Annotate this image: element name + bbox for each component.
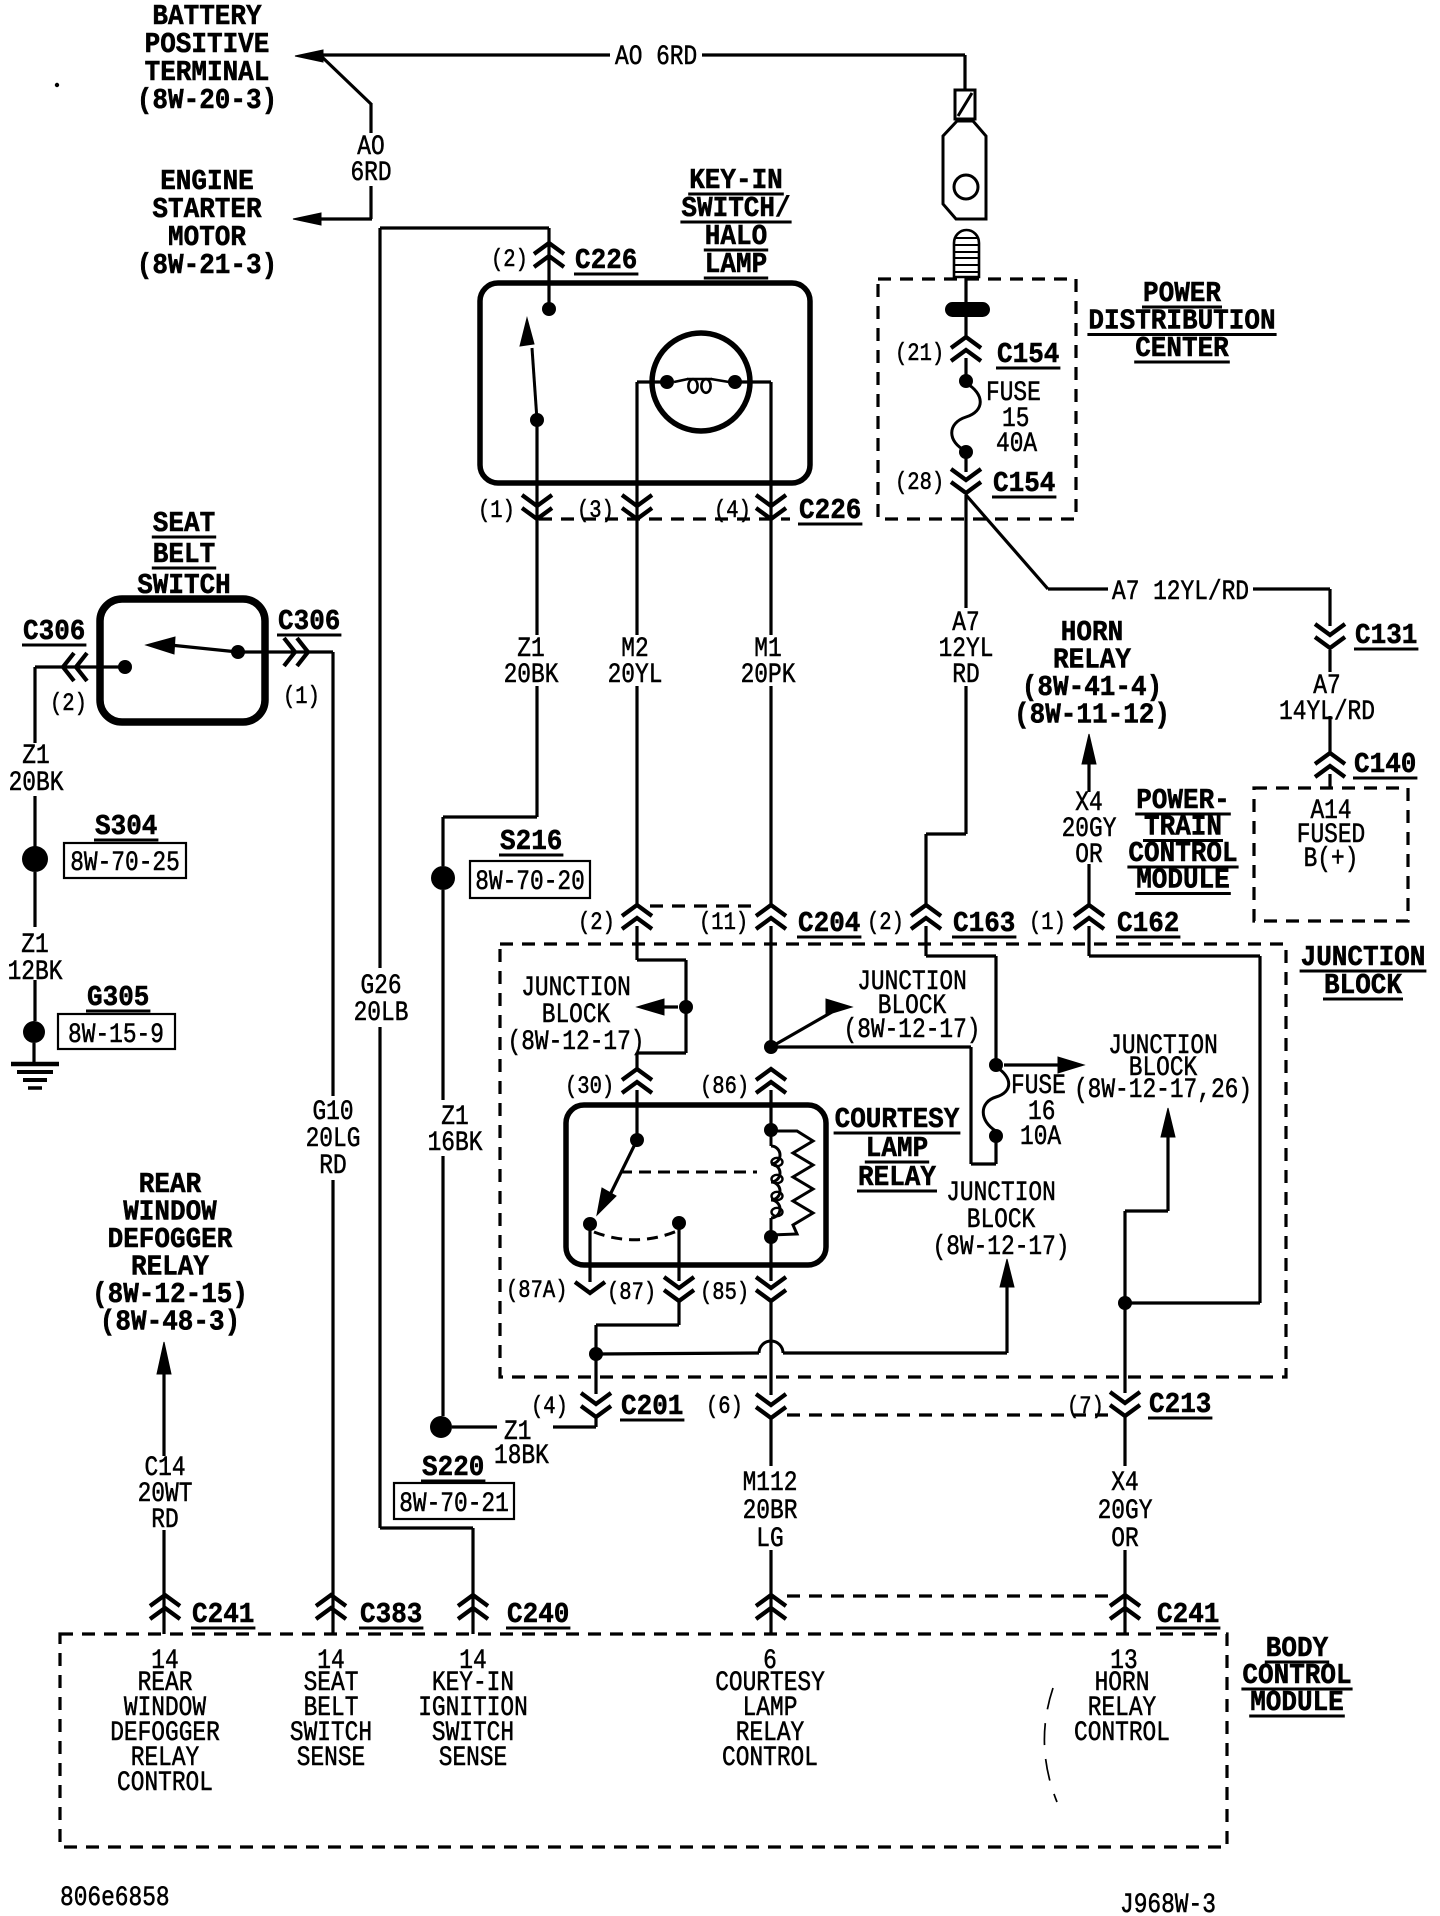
svg-text:C154: C154 [997,338,1059,371]
svg-text:C226: C226 [575,244,637,277]
svg-text:20BK: 20BK [504,660,559,691]
svg-text:(2): (2) [491,245,528,274]
svg-text:LAMP: LAMP [705,248,767,281]
svg-text:(8W-21-3): (8W-21-3) [137,249,277,282]
svg-text:S304: S304 [95,810,157,843]
svg-text:C241: C241 [192,1598,254,1631]
svg-text:C213: C213 [1149,1388,1211,1421]
svg-text:C241: C241 [1157,1598,1219,1631]
svg-text:SENSE: SENSE [439,1743,508,1774]
svg-text:(28): (28) [895,468,944,497]
svg-text:M112: M112 [743,1468,798,1499]
svg-text:(3): (3) [577,496,614,525]
svg-text:(85): (85) [700,1278,749,1307]
svg-text:SENSE: SENSE [297,1743,366,1774]
svg-text:(1): (1) [478,496,515,525]
svg-text:J968W-3: J968W-3 [1120,1890,1216,1916]
svg-text:(8W-12-17): (8W-12-17) [508,1027,645,1058]
svg-text:C240: C240 [507,1598,569,1631]
svg-text:(30): (30) [565,1072,614,1101]
svg-text:8W-70-21: 8W-70-21 [399,1489,509,1520]
svg-text:C140: C140 [1354,748,1416,781]
svg-text:20GY: 20GY [1098,1496,1153,1527]
svg-text:8W-70-20: 8W-70-20 [475,867,585,898]
svg-text:(8W-12-17,26): (8W-12-17,26) [1074,1075,1252,1106]
svg-text:(6): (6) [706,1392,743,1421]
svg-text:CONTROL: CONTROL [1074,1718,1170,1749]
svg-text:C131: C131 [1355,619,1417,652]
svg-text:CONTROL: CONTROL [117,1768,213,1799]
svg-text:20LB: 20LB [354,998,409,1029]
svg-text:(87): (87) [607,1278,656,1307]
svg-text:20BK: 20BK [9,768,64,799]
svg-text:(4): (4) [714,496,751,525]
svg-text:B(+): B(+) [1304,844,1359,875]
svg-text:BLOCK: BLOCK [1324,969,1403,1002]
svg-text:10A: 10A [1020,1122,1061,1153]
svg-text:(11): (11) [699,908,748,937]
svg-text:C201: C201 [621,1390,683,1423]
svg-text:C204: C204 [798,907,860,940]
svg-text:40A: 40A [996,429,1037,460]
svg-text:6RD: 6RD [350,158,391,189]
svg-text:(8W-48-3): (8W-48-3) [100,1306,240,1339]
svg-text:(87A): (87A) [506,1276,568,1305]
svg-text:(8W-11-12): (8W-11-12) [1014,699,1170,732]
svg-text:CONTROL: CONTROL [722,1743,818,1774]
svg-text:C162: C162 [1117,907,1179,940]
svg-text:8W-70-25: 8W-70-25 [70,848,180,879]
svg-text:(21): (21) [895,339,944,368]
svg-text:(2): (2) [867,908,904,937]
svg-text:(4): (4) [531,1392,568,1421]
svg-text:C306: C306 [23,615,85,648]
svg-text:MODULE: MODULE [1250,1686,1344,1719]
svg-text:20YL: 20YL [608,660,663,691]
svg-text:C163: C163 [953,907,1015,940]
svg-text:(8W-20-3): (8W-20-3) [137,84,277,117]
svg-text:C154: C154 [993,467,1055,500]
svg-text:C383: C383 [360,1598,422,1631]
svg-text:12BK: 12BK [8,957,63,988]
svg-text:RELAY: RELAY [858,1161,937,1194]
svg-text:AO 6RD: AO 6RD [615,42,697,73]
svg-text:SEAT: SEAT [153,507,215,540]
svg-text:(86): (86) [700,1072,749,1101]
svg-text:LG: LG [756,1524,783,1555]
svg-text:CENTER: CENTER [1135,332,1229,365]
svg-text:(1): (1) [1029,908,1066,937]
svg-text:A7 12YL/RD: A7 12YL/RD [1112,577,1249,608]
svg-text:G305: G305 [87,981,149,1014]
svg-text:(8W-12-17): (8W-12-17) [933,1232,1070,1263]
svg-text:S220: S220 [422,1451,484,1484]
svg-text:MODULE: MODULE [1136,864,1230,897]
svg-text:(8W-12-17): (8W-12-17) [844,1015,981,1046]
svg-text:806e6858: 806e6858 [60,1883,170,1914]
svg-text:16BK: 16BK [428,1128,483,1159]
svg-text:8W-15-9: 8W-15-9 [68,1020,164,1051]
svg-text:(7): (7) [1067,1392,1104,1421]
svg-text:RD: RD [319,1151,346,1182]
svg-text:(2): (2) [578,908,615,937]
svg-text:C306: C306 [278,605,340,638]
svg-text:20BR: 20BR [743,1496,798,1527]
svg-text:18BK: 18BK [494,1441,549,1472]
svg-text:C226: C226 [799,494,861,527]
svg-text:BELT: BELT [153,538,215,571]
svg-text:RD: RD [151,1505,178,1536]
svg-text:(1): (1) [283,682,320,711]
svg-text:RD: RD [952,660,979,691]
svg-text:X4: X4 [1111,1468,1138,1499]
svg-text:20PK: 20PK [741,660,796,691]
svg-text:(2): (2) [50,689,87,718]
svg-text:OR: OR [1111,1524,1139,1555]
svg-text:S216: S216 [500,825,562,858]
svg-text:14YL/RD: 14YL/RD [1279,697,1375,728]
